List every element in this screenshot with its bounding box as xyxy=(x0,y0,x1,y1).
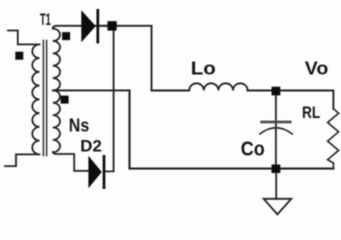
svg-text:Lo: Lo xyxy=(191,58,216,78)
inductor Lo xyxy=(189,83,247,90)
svg-text:Co: Co xyxy=(241,139,265,161)
transformer secondary winding Ns xyxy=(53,29,60,153)
svg-text:RL: RL xyxy=(302,103,320,122)
transformer T1 primary winding xyxy=(32,44,39,154)
wire D2 cathode up to D1 cathode node xyxy=(104,31,114,172)
junction node at bottom rail / ground xyxy=(272,165,281,174)
svg-text:T1: T1 xyxy=(40,11,51,29)
svg-text:D2: D2 xyxy=(80,138,102,156)
capacitor Co top lead and bottom lead xyxy=(275,91,277,169)
ground symbol xyxy=(264,199,292,215)
secondary top polarity dot xyxy=(62,32,70,40)
transformer core line 2 xyxy=(46,40,48,155)
wire tap down and bottom return rail xyxy=(130,90,334,168)
junction node at output Vo xyxy=(272,87,281,96)
wire D1 cathode to junction and down-right feed xyxy=(98,26,189,91)
wire primary top lead xyxy=(8,31,38,45)
wire Lo to output node and right turn down xyxy=(248,91,334,109)
secondary mid polarity dot xyxy=(61,96,69,104)
wire secondary bottom lead to D2 anode xyxy=(53,152,89,171)
svg-text:Ns: Ns xyxy=(69,116,89,136)
diode D2 cathode bar xyxy=(103,155,106,189)
ground lead xyxy=(275,169,277,199)
primary polarity dot xyxy=(15,52,23,60)
wire primary bottom lead xyxy=(5,154,38,166)
capacitor Co curved bottom plate xyxy=(259,128,293,135)
diode D1 cathode bar xyxy=(96,9,99,43)
svg-text:Vo: Vo xyxy=(305,58,329,78)
diode D2 triangle xyxy=(88,156,101,188)
wire secondary top lead to D1 anode xyxy=(53,26,108,29)
diode D1 triangle xyxy=(81,10,96,42)
capacitor Co top plate xyxy=(260,121,291,124)
resistor RL zigzag xyxy=(328,109,339,169)
wire secondary center tap xyxy=(53,89,130,91)
junction node at D1 cathode xyxy=(107,21,116,31)
transformer core line 1 xyxy=(42,40,44,155)
